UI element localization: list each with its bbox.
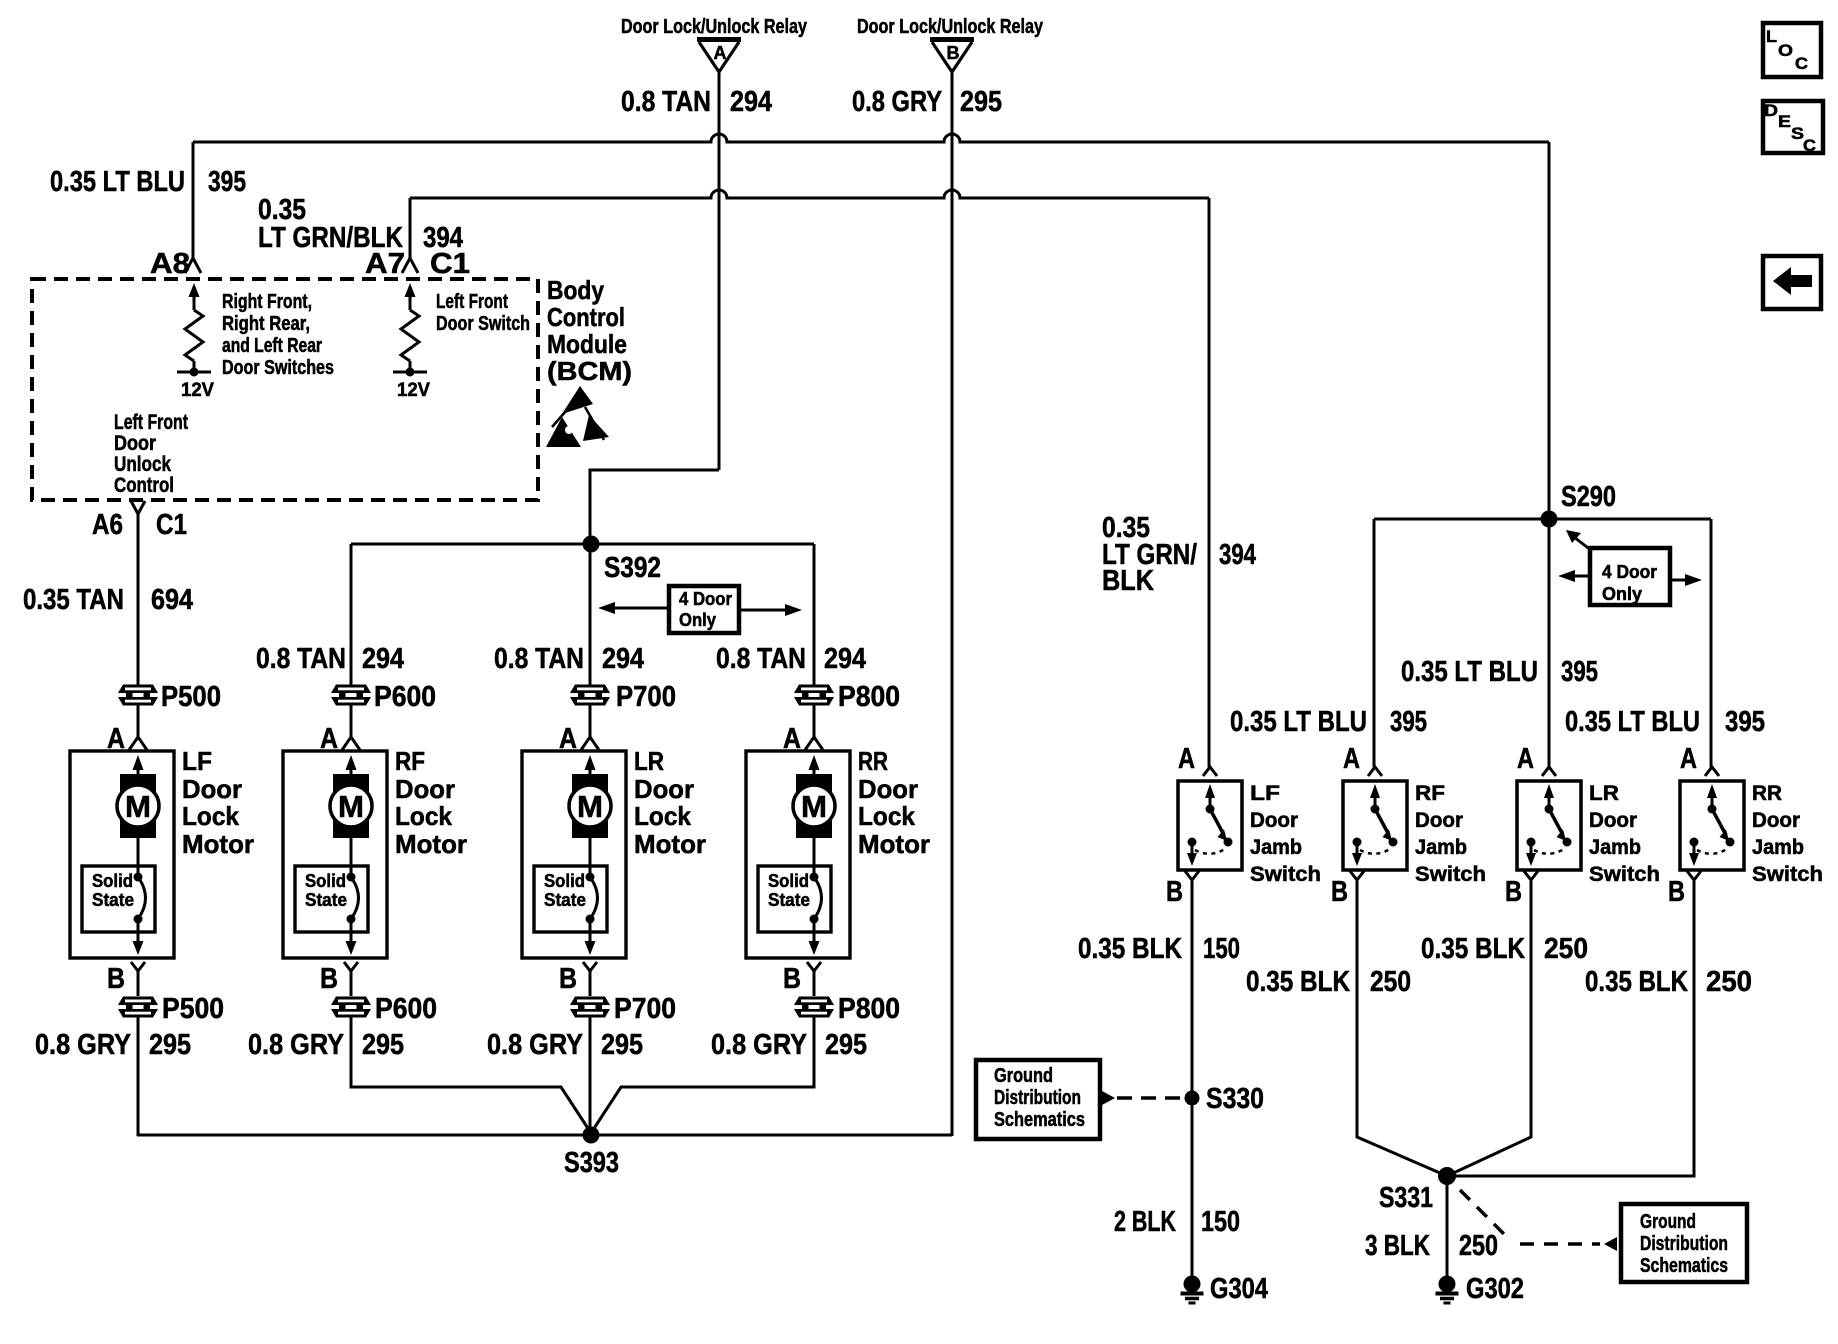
svg-text:12V: 12V (397, 380, 430, 401)
svg-text:Solid: Solid (768, 871, 809, 891)
wire motor to solid state (813, 838, 816, 876)
svg-text:Switch: Switch (1589, 863, 1660, 886)
svg-text:S393: S393 (564, 1147, 619, 1179)
wire P800B to S393 (591, 1017, 814, 1133)
svg-text:Only: Only (1602, 584, 1642, 604)
svg-text:Solid: Solid (305, 871, 346, 891)
svg-text:Door Switch: Door Switch (436, 313, 530, 335)
svg-text:0.8 TAN: 0.8 TAN (716, 643, 806, 675)
svg-text:Left Front: Left Front (436, 291, 508, 313)
svg-text:A: A (1343, 743, 1360, 775)
svg-text:694: 694 (151, 584, 193, 616)
wire motor to solid state (350, 838, 353, 876)
svg-text:C1: C1 (156, 509, 187, 541)
svg-text:Jamb: Jamb (1752, 836, 1804, 859)
svg-text:Schematics: Schematics (1640, 1255, 1728, 1277)
svg-text:A6: A6 (92, 509, 123, 541)
RF door jamb switch box (1343, 781, 1407, 870)
wire relay A jog to S392 (590, 470, 719, 540)
svg-text:295: 295 (362, 1029, 404, 1061)
svg-text:Door: Door (395, 774, 455, 804)
wire 395 drop to BCM pin A8 (192, 142, 195, 258)
svg-text:0.35 LT BLU: 0.35 LT BLU (1230, 706, 1367, 738)
svg-text:P500: P500 (162, 993, 224, 1025)
svg-text:Lock: Lock (858, 801, 916, 831)
wire S392 to P800 (813, 544, 816, 685)
svg-text:395: 395 (1390, 706, 1427, 738)
wire S331 to G302 (1446, 1176, 1449, 1277)
svg-text:0.8 GRY: 0.8 GRY (711, 1029, 807, 1061)
splice S331 (1438, 1167, 1456, 1185)
dashed reference S330 to box (1102, 1091, 1115, 1105)
svg-text:Jamb: Jamb (1589, 836, 1641, 859)
wire RR jamb B to S331 (1447, 890, 1694, 1176)
svg-text:P700: P700 (616, 681, 676, 713)
svg-text:250: 250 (1544, 933, 1588, 965)
svg-text:0.35 LT BLU: 0.35 LT BLU (1565, 706, 1700, 738)
svg-text:Lock: Lock (395, 801, 453, 831)
svg-text:D: D (1764, 101, 1778, 120)
svg-text:295: 295 (960, 86, 1002, 118)
svg-text:Switch: Switch (1415, 863, 1486, 886)
svg-text:Door: Door (858, 774, 918, 804)
svg-text:Door: Door (182, 774, 242, 804)
wire solid state to pin B (137, 919, 140, 941)
svg-text:295: 295 (825, 1029, 867, 1061)
svg-text:0.35 TAN: 0.35 TAN (23, 584, 124, 616)
svg-text:RF: RF (1415, 782, 1445, 805)
svg-text:4 Door: 4 Door (1602, 562, 1657, 582)
svg-text:Distribution: Distribution (1640, 1233, 1728, 1255)
svg-text:0.8 GRY: 0.8 GRY (35, 1029, 131, 1061)
connector P800 (B side) (794, 997, 834, 1006)
splice S330 (1185, 1091, 1200, 1106)
svg-text:RR: RR (1752, 782, 1782, 805)
svg-text:State: State (305, 890, 347, 910)
LF door lock motor box (70, 751, 174, 958)
wire solid state to pin B (589, 919, 592, 941)
svg-text:L: L (1766, 27, 1777, 46)
svg-text:B: B (1331, 876, 1348, 908)
connector P600 (A side) (331, 685, 371, 694)
svg-text:Jamb: Jamb (1415, 836, 1467, 859)
svg-text:and Left Rear: and Left Rear (222, 335, 322, 357)
horizontal bus wire 394 (BCM A7 to LF jamb) with hops (410, 190, 1209, 198)
svg-text:Door: Door (1752, 809, 1800, 832)
switch contacts of RF door jamb switch (1370, 784, 1380, 798)
horizontal bus wire 395 (relay A to S290) with hops (193, 134, 1549, 142)
LR door jamb switch box (1517, 781, 1581, 870)
svg-text:Control: Control (547, 302, 625, 332)
wire RF jamb B to S331 (1357, 890, 1447, 1176)
back arrow nav box (1763, 256, 1821, 309)
svg-text:Door Lock/Unlock Relay: Door Lock/Unlock Relay (857, 16, 1044, 38)
wire 394 drop to BCM pin A7 (409, 198, 412, 258)
wire P500B down to S393 bus (137, 1017, 140, 1136)
svg-text:Lock: Lock (634, 801, 692, 831)
dashed reference S331 to box (1460, 1190, 1507, 1237)
svg-text:A8: A8 (150, 248, 190, 280)
svg-text:P600: P600 (374, 681, 436, 713)
svg-text:Distribution: Distribution (994, 1087, 1081, 1109)
svg-text:B: B (947, 43, 960, 63)
svg-text:Door: Door (1250, 809, 1298, 832)
svg-text:294: 294 (362, 643, 404, 675)
wire P600B to S393 (351, 1017, 591, 1133)
svg-text:(BCM): (BCM) (547, 356, 632, 386)
motor symbol M of RF door lock motor (346, 755, 357, 770)
svg-text:294: 294 (602, 643, 644, 675)
svg-text:Lock: Lock (182, 801, 240, 831)
wire LR jamb B to S331 (1447, 890, 1531, 1176)
svg-text:M: M (577, 789, 603, 824)
svg-text:C: C (1803, 136, 1816, 155)
svg-text:0.8 TAN: 0.8 TAN (256, 643, 346, 675)
svg-text:Solid: Solid (544, 871, 585, 891)
svg-text:B: B (320, 963, 338, 995)
ESD sensitive symbol (562, 386, 593, 414)
connector P600 (B side) (331, 997, 371, 1006)
svg-text:0.35 LT BLU: 0.35 LT BLU (1401, 656, 1538, 688)
svg-text:E: E (1778, 112, 1791, 131)
wire P700B to S393 (589, 1017, 592, 1135)
svg-text:0.8 TAN: 0.8 TAN (621, 86, 711, 118)
splice S290 (1374, 518, 1711, 521)
svg-text:Body: Body (547, 275, 604, 305)
svg-text:LR: LR (1589, 782, 1619, 805)
switch contacts of RR door jamb switch (1707, 784, 1717, 798)
wire S392 to P600 (350, 544, 353, 685)
RF door lock motor box (283, 751, 387, 958)
svg-text:395: 395 (1561, 656, 1598, 688)
wire solid state to pin B (813, 919, 816, 941)
DESC nav box (1763, 101, 1823, 153)
connector P500 (A side) (118, 685, 158, 694)
Ground Distribution Schematics box (S331) (1621, 1204, 1747, 1282)
wire motor to solid state (137, 838, 140, 876)
wire 394 drop to LF jamb switch (continues from bus) (1208, 198, 1211, 767)
wire relay B down to S393 bus (951, 72, 954, 1136)
svg-text:Motor: Motor (395, 829, 467, 859)
svg-text:Ground: Ground (1640, 1211, 1696, 1233)
svg-text:0.35 BLK: 0.35 BLK (1246, 966, 1350, 998)
svg-text:RF: RF (395, 746, 425, 776)
svg-text:State: State (544, 890, 586, 910)
svg-text:State: State (92, 890, 134, 910)
svg-text:Door: Door (634, 774, 694, 804)
svg-text:B: B (1668, 876, 1685, 908)
Body Control Module dashed box (32, 279, 538, 500)
svg-text:Switch: Switch (1250, 863, 1321, 886)
motor symbol M of LR door lock motor (585, 755, 596, 770)
svg-text:A: A (714, 43, 727, 63)
svg-text:P600: P600 (375, 993, 437, 1025)
svg-text:0.8 GRY: 0.8 GRY (852, 86, 942, 118)
wire S290 to RR jamb switch (1710, 519, 1713, 767)
svg-text:A: A (1178, 743, 1195, 775)
solid state unit inside RF motor (295, 866, 368, 932)
wire solid state to pin B (350, 919, 353, 941)
svg-text:Door: Door (1589, 809, 1637, 832)
4 Door Only tag (S392) (669, 586, 739, 633)
svg-text:Door Switches: Door Switches (222, 357, 334, 379)
svg-text:Door: Door (1415, 809, 1463, 832)
wire motor to solid state (589, 838, 592, 876)
svg-text:G302: G302 (1466, 1273, 1524, 1305)
svg-text:250: 250 (1706, 966, 1752, 998)
svg-text:A: A (1680, 743, 1697, 775)
svg-text:B: B (107, 963, 125, 995)
svg-text:0.35 BLK: 0.35 BLK (1585, 966, 1688, 998)
svg-text:4 Door: 4 Door (679, 589, 732, 609)
svg-text:Door: Door (114, 432, 156, 455)
RR door lock motor box (746, 751, 850, 958)
wire S290 to RF jamb switch (1373, 519, 1376, 767)
solid state unit inside LR motor (534, 866, 607, 932)
connector P700 (A side) (570, 685, 610, 694)
solid state unit inside LF motor (82, 866, 155, 932)
svg-text:State: State (768, 890, 810, 910)
svg-text:150: 150 (1201, 1206, 1240, 1238)
splice S393 (583, 1127, 600, 1144)
svg-text:Right Front,: Right Front, (222, 291, 312, 313)
4 Door Only tag (S290) (1574, 537, 1592, 551)
svg-text:Control: Control (114, 474, 174, 497)
svg-text:S392: S392 (604, 552, 661, 584)
wire S290 to LR jamb switch (1548, 519, 1551, 767)
svg-text:0.35 BLK: 0.35 BLK (1078, 933, 1182, 965)
svg-text:0.8 GRY: 0.8 GRY (487, 1029, 583, 1061)
svg-text:0.35 BLK: 0.35 BLK (1421, 933, 1525, 965)
svg-text:0.8 TAN: 0.8 TAN (494, 643, 584, 675)
svg-text:250: 250 (1459, 1230, 1498, 1262)
LOC nav box (1763, 23, 1821, 77)
svg-text:M: M (801, 789, 827, 824)
svg-text:294: 294 (730, 86, 772, 118)
svg-text:A: A (1517, 743, 1534, 775)
svg-text:3 BLK: 3 BLK (1365, 1230, 1430, 1262)
resistor: Left Front door switch pull-up (405, 283, 416, 297)
svg-text:B: B (783, 963, 801, 995)
svg-text:G304: G304 (1210, 1273, 1268, 1305)
svg-text:BLK: BLK (1102, 565, 1154, 597)
wire LF jamb B to G304 (1191, 890, 1194, 1277)
svg-text:P700: P700 (614, 993, 676, 1025)
svg-text:P500: P500 (161, 681, 221, 713)
svg-text:C1: C1 (430, 248, 470, 280)
wire S392 to P700 (589, 544, 592, 685)
svg-text:0.35 LT BLU: 0.35 LT BLU (50, 166, 185, 198)
svg-text:A7: A7 (365, 248, 405, 280)
svg-text:295: 295 (149, 1029, 191, 1061)
svg-text:Right Rear,: Right Rear, (222, 313, 310, 335)
svg-text:S290: S290 (1561, 481, 1616, 513)
svg-text:M: M (125, 789, 151, 824)
ground G302 (1439, 1276, 1456, 1293)
motor symbol M of RR door lock motor (809, 755, 820, 770)
svg-text:295: 295 (601, 1029, 643, 1061)
svg-text:Jamb: Jamb (1250, 836, 1302, 859)
svg-text:294: 294 (824, 643, 866, 675)
svg-text:2 BLK: 2 BLK (1114, 1206, 1176, 1238)
RR door jamb switch box (1680, 781, 1744, 870)
svg-text:RR: RR (858, 746, 888, 776)
svg-text:P800: P800 (838, 681, 900, 713)
svg-text:S331: S331 (1379, 1182, 1433, 1214)
svg-text:0.8 GRY: 0.8 GRY (248, 1029, 344, 1061)
connector P800 (A side) (794, 685, 834, 694)
switch contacts of LR door jamb switch (1544, 784, 1554, 798)
resistor: Right Front/Right Rear/Left Rear door switches pull-up (189, 283, 200, 297)
solid state unit inside RR motor (758, 866, 831, 932)
svg-text:S330: S330 (1206, 1083, 1264, 1115)
svg-text:12V: 12V (181, 380, 214, 401)
svg-text:395: 395 (208, 166, 246, 198)
svg-text:LR: LR (634, 746, 664, 776)
LF door jamb switch box (1178, 781, 1242, 870)
Ground Distribution Schematics box (S330) (976, 1060, 1100, 1139)
connector P500 (B side) (118, 997, 158, 1006)
svg-text:Switch: Switch (1752, 863, 1823, 886)
connector P700 (B side) (570, 997, 610, 1006)
svg-text:B: B (1505, 876, 1522, 908)
svg-text:394: 394 (1219, 539, 1256, 571)
svg-text:Only: Only (679, 610, 716, 630)
wires connectors to motor pins (137, 705, 140, 738)
svg-text:250: 250 (1370, 966, 1411, 998)
wire 694 from A6 to P500 (137, 514, 140, 685)
svg-text:LF: LF (1250, 782, 1280, 805)
svg-text:O: O (1778, 41, 1793, 60)
svg-text:150: 150 (1203, 933, 1240, 965)
svg-text:Solid: Solid (92, 871, 133, 891)
svg-text:C: C (1795, 54, 1808, 73)
svg-text:Door Lock/Unlock Relay: Door Lock/Unlock Relay (621, 16, 808, 38)
S393 bus wire (137, 1134, 952, 1137)
svg-text:M: M (338, 789, 364, 824)
switch contacts of LF door jamb switch (1205, 784, 1215, 798)
LR door lock motor box (522, 751, 626, 958)
svg-text:Motor: Motor (634, 829, 706, 859)
wire 395 down from bus to S290 (1548, 142, 1551, 519)
splice S392 (351, 543, 814, 546)
svg-text:Ground: Ground (994, 1065, 1053, 1087)
svg-text:B: B (1166, 876, 1183, 908)
svg-text:Left Front: Left Front (114, 411, 188, 434)
svg-text:395: 395 (1725, 706, 1765, 738)
ground G304 (1184, 1276, 1201, 1293)
svg-text:Motor: Motor (182, 829, 254, 859)
svg-text:Schematics: Schematics (994, 1109, 1085, 1131)
svg-text:B: B (559, 963, 577, 995)
svg-text:Motor: Motor (858, 829, 930, 859)
motor symbol M of LF door lock motor (133, 755, 144, 770)
wire relay A down (718, 72, 721, 470)
svg-text:LF: LF (182, 746, 212, 776)
svg-text:Unlock: Unlock (114, 453, 171, 476)
svg-text:P800: P800 (838, 993, 900, 1025)
svg-text:Module: Module (547, 329, 627, 359)
